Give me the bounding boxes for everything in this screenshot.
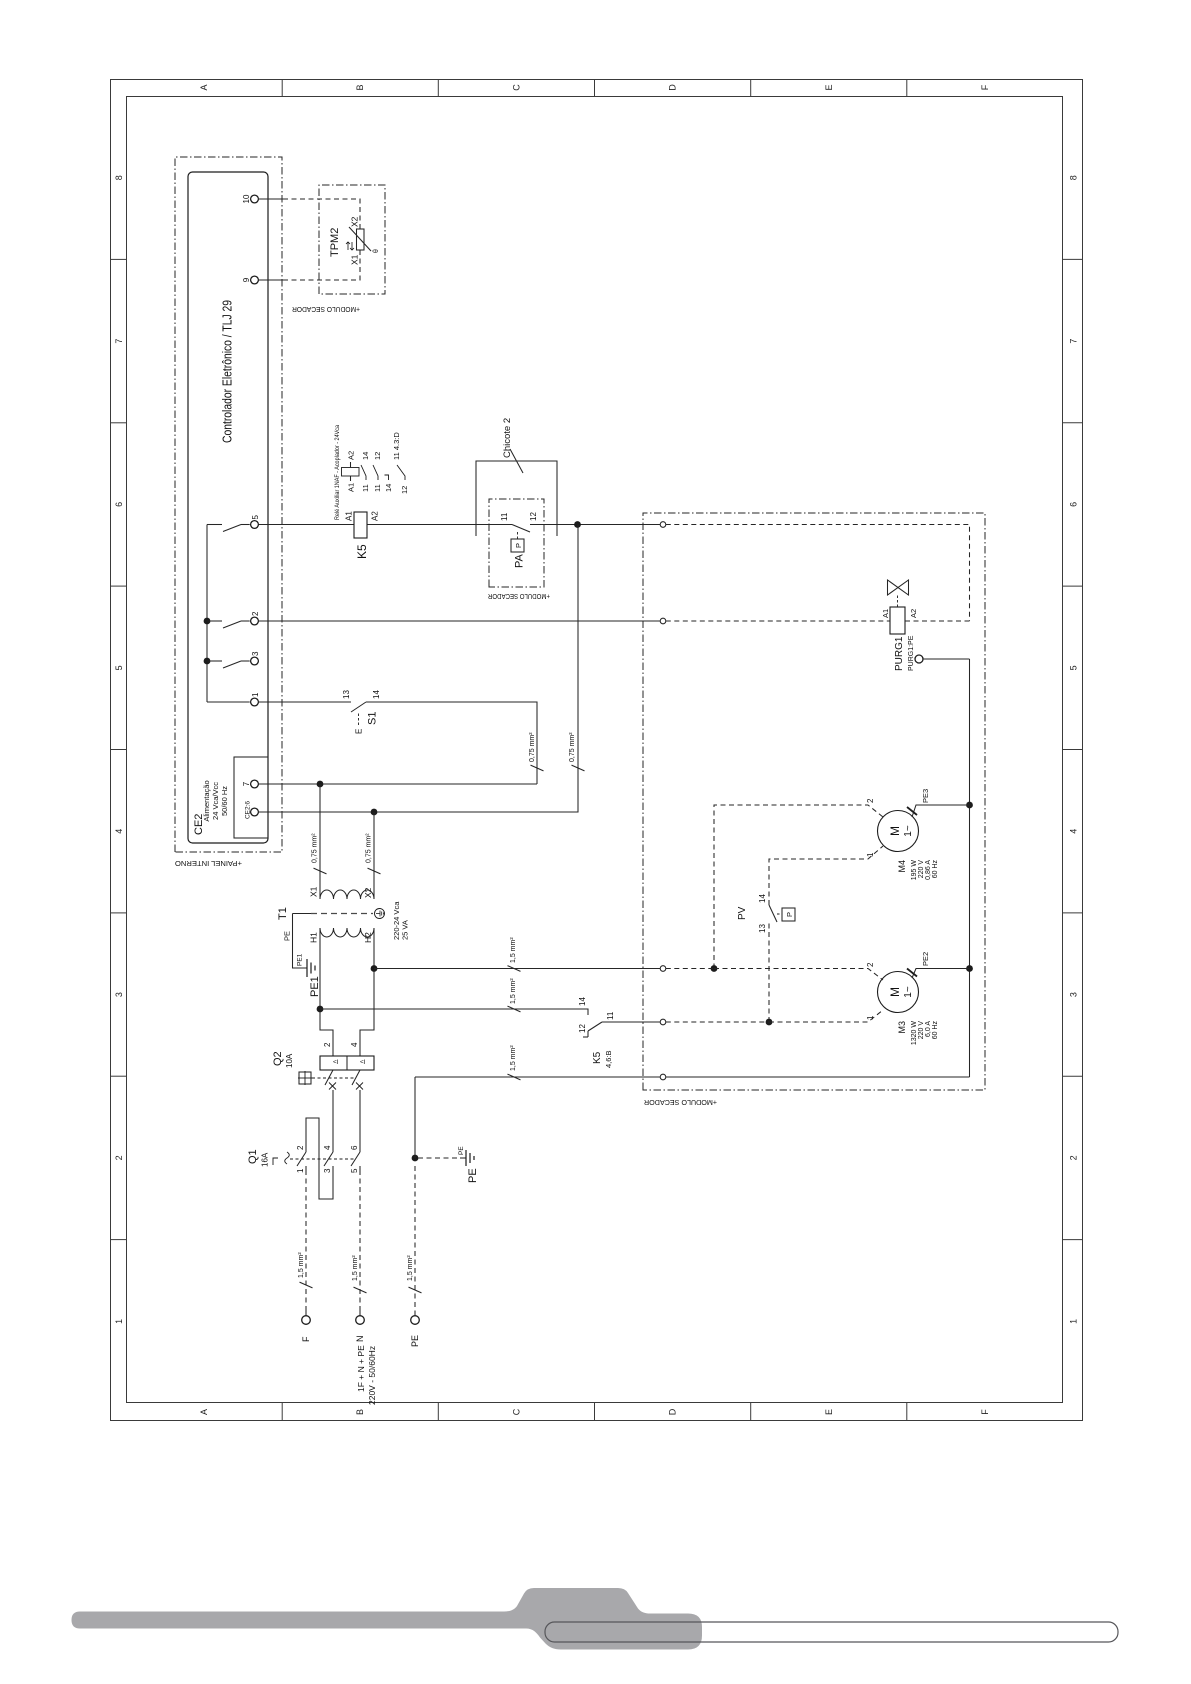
wire PE1 branch to K5-14 — [317, 978, 588, 1015]
controller internal switch to pin 2 — [207, 621, 250, 628]
transformer screen ground symbol — [375, 909, 385, 919]
wire M3-2 dashed — [666, 962, 883, 980]
controller pin 9 — [242, 276, 258, 284]
wire pin1 to S1 — [259, 701, 352, 703]
Q2 manual drive linkage — [298, 1071, 356, 1085]
terminal N — [355, 1316, 365, 1342]
wire H2 node to module (M3-2 net) — [374, 937, 661, 972]
controller internal bus — [204, 525, 211, 703]
wire X2 — [363, 812, 381, 899]
module plug node 24V — [660, 522, 666, 528]
wire S1 to pin7 node — [366, 702, 537, 784]
M4 PE3 pigtail — [907, 789, 970, 817]
footer graphic — [72, 1588, 1119, 1650]
module box +MODULO SECADOR (TPM2) — [292, 185, 385, 312]
breaker Q1 16A — [247, 1149, 356, 1167]
module plug node pin2 — [660, 618, 666, 624]
module plug node H2 — [660, 966, 666, 972]
K5 contact mirror table — [334, 425, 409, 520]
M3 PE2 pigtail — [907, 952, 970, 978]
wire M4-1 (via PV) — [766, 846, 883, 1025]
wire pin10 to TPM2 X2 — [259, 198, 284, 200]
Q1 pole 1-2 — [296, 1145, 306, 1173]
wire PE into module — [415, 1045, 661, 1080]
motor M3 — [878, 972, 940, 1046]
wire 24V dashed inside module — [666, 525, 970, 622]
relay coil K5 — [345, 511, 380, 559]
ground PE1 (transformer screen) — [283, 914, 322, 998]
wire pin1 internal — [207, 701, 250, 703]
node junction 24V / PA out — [574, 521, 581, 528]
controller pin 1 — [251, 692, 260, 706]
Q1 series jumper pole3 to pole2 — [306, 1118, 333, 1199]
controller pin 3 — [251, 651, 260, 665]
pressure switch PV — [737, 894, 795, 933]
wire X1 — [309, 784, 327, 899]
wire pin7 / X1 node — [259, 781, 538, 788]
wire pin9 to TPM2 X1 — [259, 279, 284, 281]
controller pin 5 — [251, 515, 260, 529]
wire pin5 net (24V) — [259, 524, 661, 526]
wire M4-2 (from H2 net) — [711, 798, 883, 972]
pressure switch PA (NC) — [500, 512, 538, 568]
terminal PURG1:PE — [915, 655, 970, 663]
connector pin CE2:6 — [245, 801, 259, 819]
wire gauge 0,75mm2 (S1 wire) — [529, 732, 544, 771]
thermistor TPM2 — [329, 216, 380, 265]
pushbutton S1 — [342, 690, 381, 734]
breaker Q2 10A — [272, 1042, 374, 1070]
wire M3-1 dashed (K5-11 net) — [666, 1010, 883, 1022]
module plug node K5-11 — [660, 1019, 666, 1025]
wire terminal PE to PE node — [407, 1077, 422, 1316]
wire CE2:6 / X2 / PA-out — [259, 525, 579, 816]
wire H1 — [309, 928, 334, 1056]
module box +MODULO SECADOR (dryer) — [643, 513, 985, 1107]
Q2 pole 3-4 contact — [352, 1070, 363, 1149]
Q2 pole 1-2 contact — [325, 1070, 336, 1149]
controller pin 10 — [242, 194, 258, 203]
module box +MODULO SECADOR (PA) — [488, 499, 550, 599]
terminal F — [301, 1316, 311, 1342]
controller pin 7 — [242, 780, 258, 788]
module plug node PE — [660, 1074, 666, 1080]
cable bracket Chicote 2 — [476, 418, 557, 536]
controller internal switch to pin 3 — [207, 661, 250, 668]
controller U1 Controlador Eletrônico / TLJ 29 — [188, 172, 268, 843]
supply label 1F+N+PE 220V 50/60Hz — [356, 1345, 377, 1405]
terminal PE — [410, 1316, 420, 1347]
ground PE — [418, 1146, 479, 1183]
PE bus inside module — [666, 659, 973, 1077]
transformer T1 — [277, 890, 410, 940]
Q1 pole 3-4 — [323, 1145, 333, 1173]
wire Q1 pole1 to terminal F — [298, 1166, 313, 1316]
motor M4 — [878, 811, 940, 881]
wire H2 / M3-2 node — [360, 928, 377, 1056]
wire pin2 net — [259, 620, 891, 622]
controller internal switch to pin 5 — [207, 525, 250, 532]
Q1 pole 5-6 — [350, 1145, 360, 1173]
wire gauge 0,75mm2 (CE2:6 wire) — [569, 732, 585, 771]
connector CE2 power sub-box — [193, 757, 268, 838]
controller enclosure +PAINEL INTERNO — [175, 157, 282, 868]
solenoid valve PURG1 — [881, 580, 970, 671]
wire Q1 pole5 to terminal N — [352, 1166, 367, 1316]
controller pin 2 — [251, 611, 260, 625]
relay contact K5 11/12/14 — [578, 1011, 661, 1068]
